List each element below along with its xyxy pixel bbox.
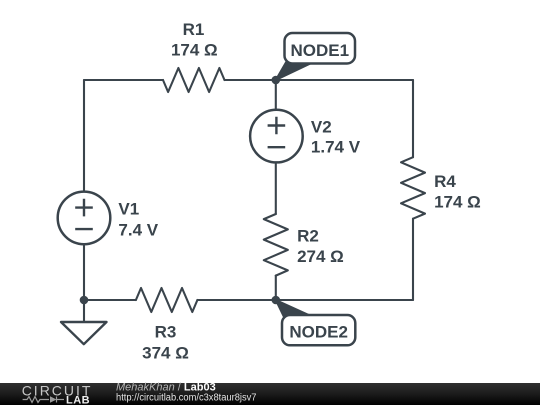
svg-text:NODE1: NODE1 xyxy=(291,41,350,60)
voltage source V1 xyxy=(58,192,111,245)
wire top segment R1 to node1 and right corner xyxy=(225,79,414,81)
wire bottom segment right part xyxy=(197,299,413,301)
wire right branch lower xyxy=(412,219,414,300)
resistor R1 xyxy=(163,68,225,92)
svg-text:174 Ω: 174 Ω xyxy=(434,193,481,212)
svg-text:174 Ω: 174 Ω xyxy=(171,41,218,60)
svg-text:R3: R3 xyxy=(155,323,177,342)
svg-text:1.74 V: 1.74 V xyxy=(311,138,361,157)
svg-text:LAB: LAB xyxy=(66,394,90,405)
node NODE1 box xyxy=(285,33,356,64)
wire left branch top: V1 top to top-left corner xyxy=(83,80,85,191)
voltage source V2 xyxy=(250,110,303,163)
resistor R3 xyxy=(136,288,198,312)
svg-text:R2: R2 xyxy=(297,226,319,245)
wire right branch upper xyxy=(412,80,414,157)
wire top segment to R1 xyxy=(84,79,163,81)
svg-text:http://circuitlab.com/c3x8taur: http://circuitlab.com/c3x8taur8jsv7 xyxy=(116,392,257,403)
resistor R4 xyxy=(401,157,425,219)
node NODE2 pointer xyxy=(276,300,311,317)
logo diode triangle xyxy=(50,396,57,402)
svg-text:374 Ω: 374 Ω xyxy=(142,344,189,363)
svg-text:V1: V1 xyxy=(118,200,139,219)
wire middle branch: node1 to V2 top xyxy=(275,80,277,109)
svg-text:7.4 V: 7.4 V xyxy=(118,221,158,240)
ground xyxy=(61,322,107,344)
logo squiggle wire xyxy=(23,397,64,403)
svg-text:V2: V2 xyxy=(311,118,332,137)
svg-text:R4: R4 xyxy=(434,172,456,191)
wire V2 bottom to R2 top xyxy=(275,164,277,215)
wire V1 bottom to ground node xyxy=(83,245,85,300)
node junction dot node2 xyxy=(272,296,281,305)
svg-text:274 Ω: 274 Ω xyxy=(297,247,344,266)
svg-text:NODE2: NODE2 xyxy=(289,322,348,341)
wire bottom segment left part xyxy=(84,299,136,301)
node NODE1 pointer xyxy=(276,62,312,81)
resistor R2 xyxy=(264,214,288,276)
node junction dot ground xyxy=(80,296,89,305)
svg-text:R1: R1 xyxy=(183,20,205,39)
node NODE2 box xyxy=(282,315,355,345)
wire R2 bottom to node2 xyxy=(275,276,277,300)
ground stub wire xyxy=(83,300,85,322)
node junction dot node1 xyxy=(272,76,281,85)
